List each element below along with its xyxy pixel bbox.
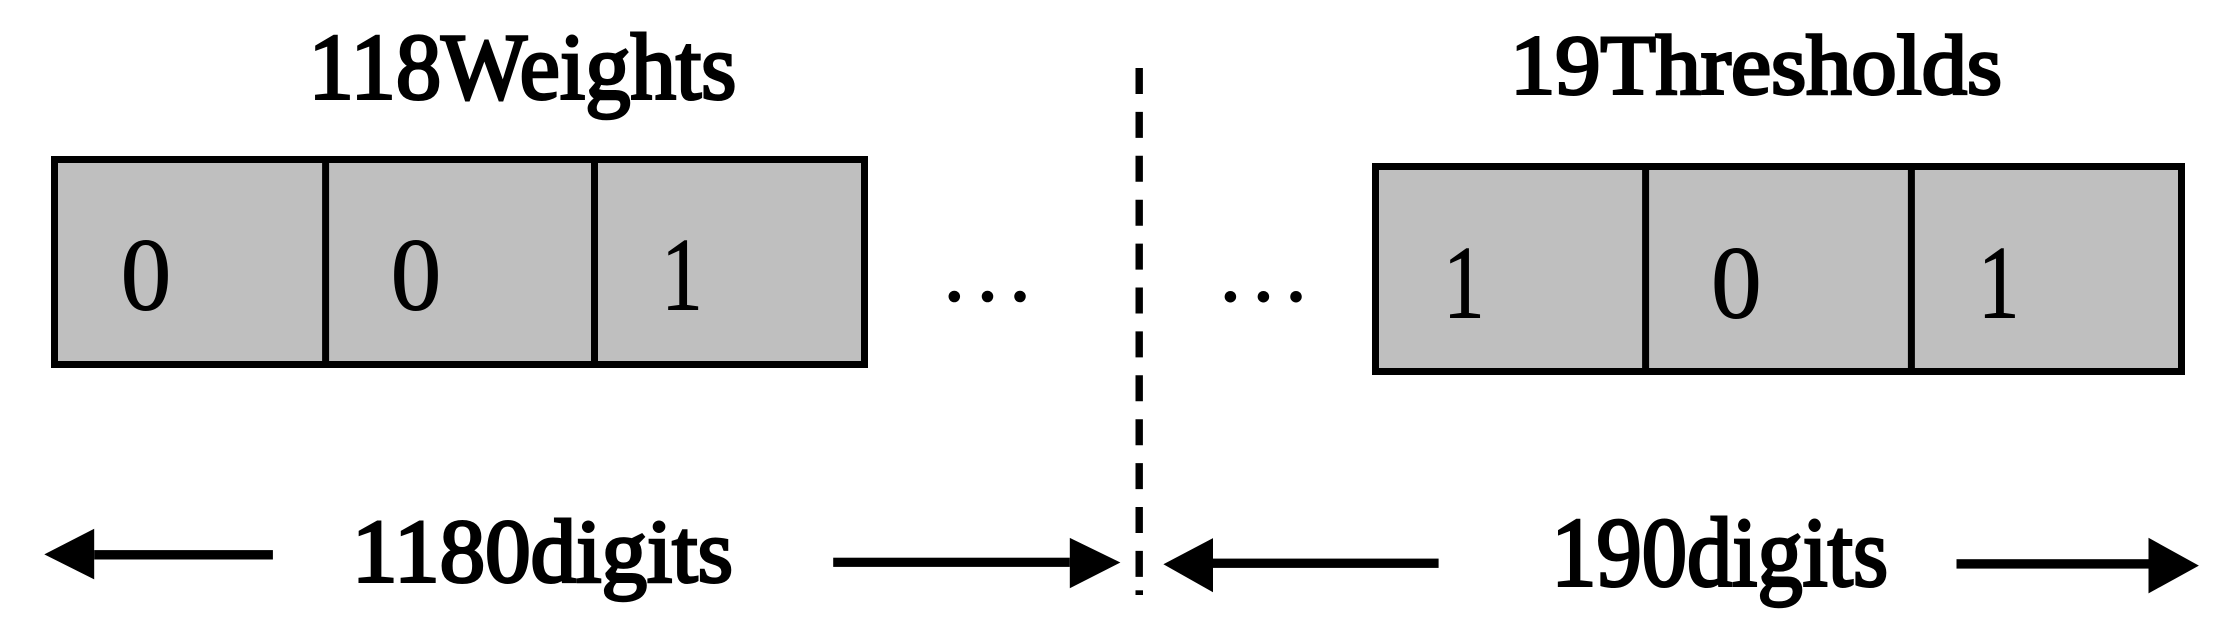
thresholds register box	[1376, 167, 2182, 372]
ellipsis right	[1225, 291, 1237, 303]
arrow mid-left (points right) shaft	[833, 558, 1070, 567]
arrow mid-right (points left) head	[1163, 538, 1213, 592]
dashed line stub	[1136, 590, 1144, 595]
arrow mid-left head	[1070, 538, 1121, 588]
svg-text:0: 0	[391, 218, 442, 333]
thresholds cell divider 1	[1642, 167, 1649, 372]
svg-text:19Thresholds: 19Thresholds	[1510, 18, 2002, 112]
weights cell divider 1	[322, 160, 329, 365]
svg-text:0: 0	[121, 218, 172, 333]
arrow far-right (points right) shaft	[1957, 559, 2149, 568]
weights register box	[55, 160, 865, 365]
ellipsis left	[949, 291, 961, 303]
svg-text:190digits: 190digits	[1551, 499, 1888, 608]
arrow mid-right shaft	[1213, 559, 1439, 568]
svg-text:118Weights: 118Weights	[309, 15, 737, 119]
arrow far-left shaft	[94, 550, 273, 559]
weights cell divider 2	[591, 160, 598, 365]
svg-text:0: 0	[1711, 226, 1762, 341]
svg-text:1: 1	[1443, 226, 1485, 341]
arrow far-right head	[2149, 538, 2199, 594]
svg-text:1: 1	[1978, 226, 2020, 341]
svg-text:1: 1	[661, 218, 703, 333]
thresholds cell divider 2	[1908, 167, 1915, 372]
svg-text:1180digits: 1180digits	[352, 502, 733, 601]
arrow far-left (points left) head	[44, 529, 94, 580]
dashed divider line	[1135, 68, 1142, 577]
